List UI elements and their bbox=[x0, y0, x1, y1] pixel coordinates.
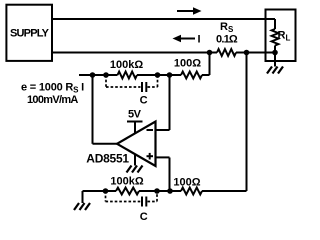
svg-text:0.1Ω: 0.1Ω bbox=[216, 34, 238, 46]
svg-text:I: I bbox=[198, 33, 201, 45]
svg-text:SUPPLY: SUPPLY bbox=[10, 27, 50, 39]
svg-text:AD8551: AD8551 bbox=[86, 152, 129, 166]
svg-text:C: C bbox=[140, 94, 148, 106]
svg-text:100kΩ: 100kΩ bbox=[110, 176, 143, 188]
svg-text:100Ω: 100Ω bbox=[174, 58, 201, 70]
svg-text:100Ω: 100Ω bbox=[173, 177, 200, 189]
svg-text:5V: 5V bbox=[128, 109, 142, 121]
svg-text:100mV/mA: 100mV/mA bbox=[27, 94, 78, 106]
svg-text:100kΩ: 100kΩ bbox=[110, 59, 143, 71]
svg-text:C: C bbox=[140, 211, 148, 223]
